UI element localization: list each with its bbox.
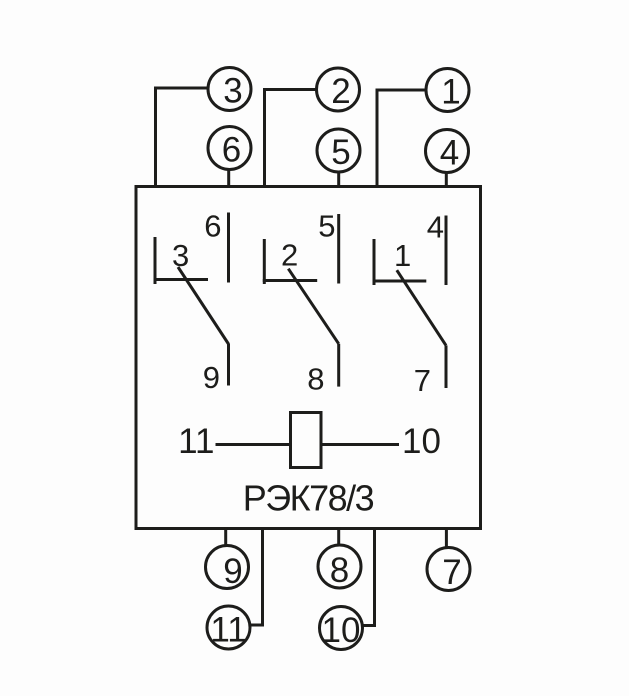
svg-text:9: 9 xyxy=(223,552,242,591)
contact NO line 9 xyxy=(227,344,230,386)
svg-text:7: 7 xyxy=(414,363,431,398)
contact NO line 8 xyxy=(337,344,340,387)
contact NO line 7 xyxy=(445,345,448,388)
terminal pin 7 xyxy=(427,548,470,593)
svg-text:2: 2 xyxy=(281,238,298,273)
svg-text:1: 1 xyxy=(394,238,411,273)
svg-text:8: 8 xyxy=(307,362,324,397)
contact NC line 4 xyxy=(445,216,448,286)
wire pin 6 to body top xyxy=(227,170,230,187)
wire pin 4 to body top xyxy=(445,173,448,187)
relay body outline xyxy=(136,187,481,529)
coil K1 xyxy=(291,413,322,468)
svg-text:3: 3 xyxy=(223,71,242,110)
contact blade 2-8 xyxy=(288,269,338,344)
terminal pin 10 xyxy=(320,607,363,651)
terminal pin 9 xyxy=(206,546,249,592)
coil wire right xyxy=(322,443,400,446)
wire pin 8 to body bottom xyxy=(337,527,340,545)
svg-text:6: 6 xyxy=(222,131,241,170)
wire pin 3 to body top xyxy=(156,88,208,187)
contact blade 3-9 xyxy=(178,267,229,344)
wire pin 2 to body top xyxy=(265,90,316,188)
svg-text:6: 6 xyxy=(204,208,221,243)
svg-text:5: 5 xyxy=(331,133,350,172)
contact common horizontal 1 xyxy=(373,280,427,283)
wire pin 9 to body bottom xyxy=(224,527,227,546)
svg-text:9: 9 xyxy=(203,360,220,395)
contact common vertical 2 xyxy=(263,239,266,284)
contact NC line 6 xyxy=(227,213,230,283)
contact NC line 5 xyxy=(337,214,340,284)
wire pin 11 to body bottom xyxy=(250,527,263,625)
terminal pin 4 xyxy=(426,130,469,173)
svg-text:4: 4 xyxy=(427,210,444,245)
wire pin 7 to body bottom xyxy=(445,527,448,548)
svg-text:11: 11 xyxy=(210,611,246,650)
wire pin 1 to body top xyxy=(377,90,425,187)
svg-text:8: 8 xyxy=(330,551,349,590)
terminal pin 8 xyxy=(318,545,361,590)
contact common vertical 3 xyxy=(154,237,157,284)
terminal pin 3 xyxy=(208,68,251,111)
svg-text:7: 7 xyxy=(442,553,461,592)
svg-text:5: 5 xyxy=(318,208,335,243)
svg-text:10: 10 xyxy=(402,422,441,461)
coil wire left xyxy=(216,443,291,446)
terminal pin 2 xyxy=(317,68,360,111)
contact common horizontal 2 xyxy=(263,279,317,282)
terminal pin 11 xyxy=(207,606,250,650)
wire pin 10 to body bottom xyxy=(363,527,375,626)
svg-text:11: 11 xyxy=(178,422,214,461)
svg-text:1: 1 xyxy=(441,73,460,112)
svg-text:РЭК78/3: РЭК78/3 xyxy=(243,478,374,519)
contact common vertical 1 xyxy=(373,239,376,285)
svg-text:4: 4 xyxy=(440,134,459,173)
svg-text:10: 10 xyxy=(322,611,361,650)
svg-text:3: 3 xyxy=(172,238,189,273)
svg-text:2: 2 xyxy=(331,72,350,111)
terminal pin 5 xyxy=(317,129,360,172)
wire pin 5 to body top xyxy=(337,172,340,187)
terminal pin 6 xyxy=(208,127,251,170)
contact blade 1-7 xyxy=(397,270,446,345)
contact common horizontal 3 xyxy=(154,278,209,281)
terminal pin 1 xyxy=(426,69,469,112)
